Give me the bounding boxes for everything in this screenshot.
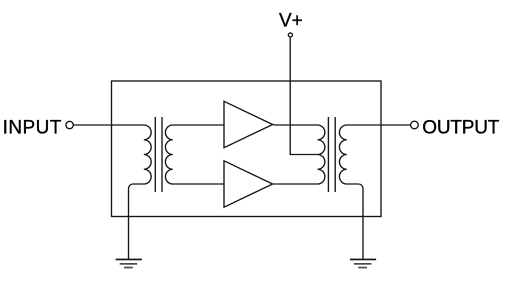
svg-text:INPUT: INPUT — [3, 118, 62, 139]
svg-text:OUTPUT: OUTPUT — [422, 118, 500, 139]
svg-text:V+: V+ — [279, 10, 303, 31]
